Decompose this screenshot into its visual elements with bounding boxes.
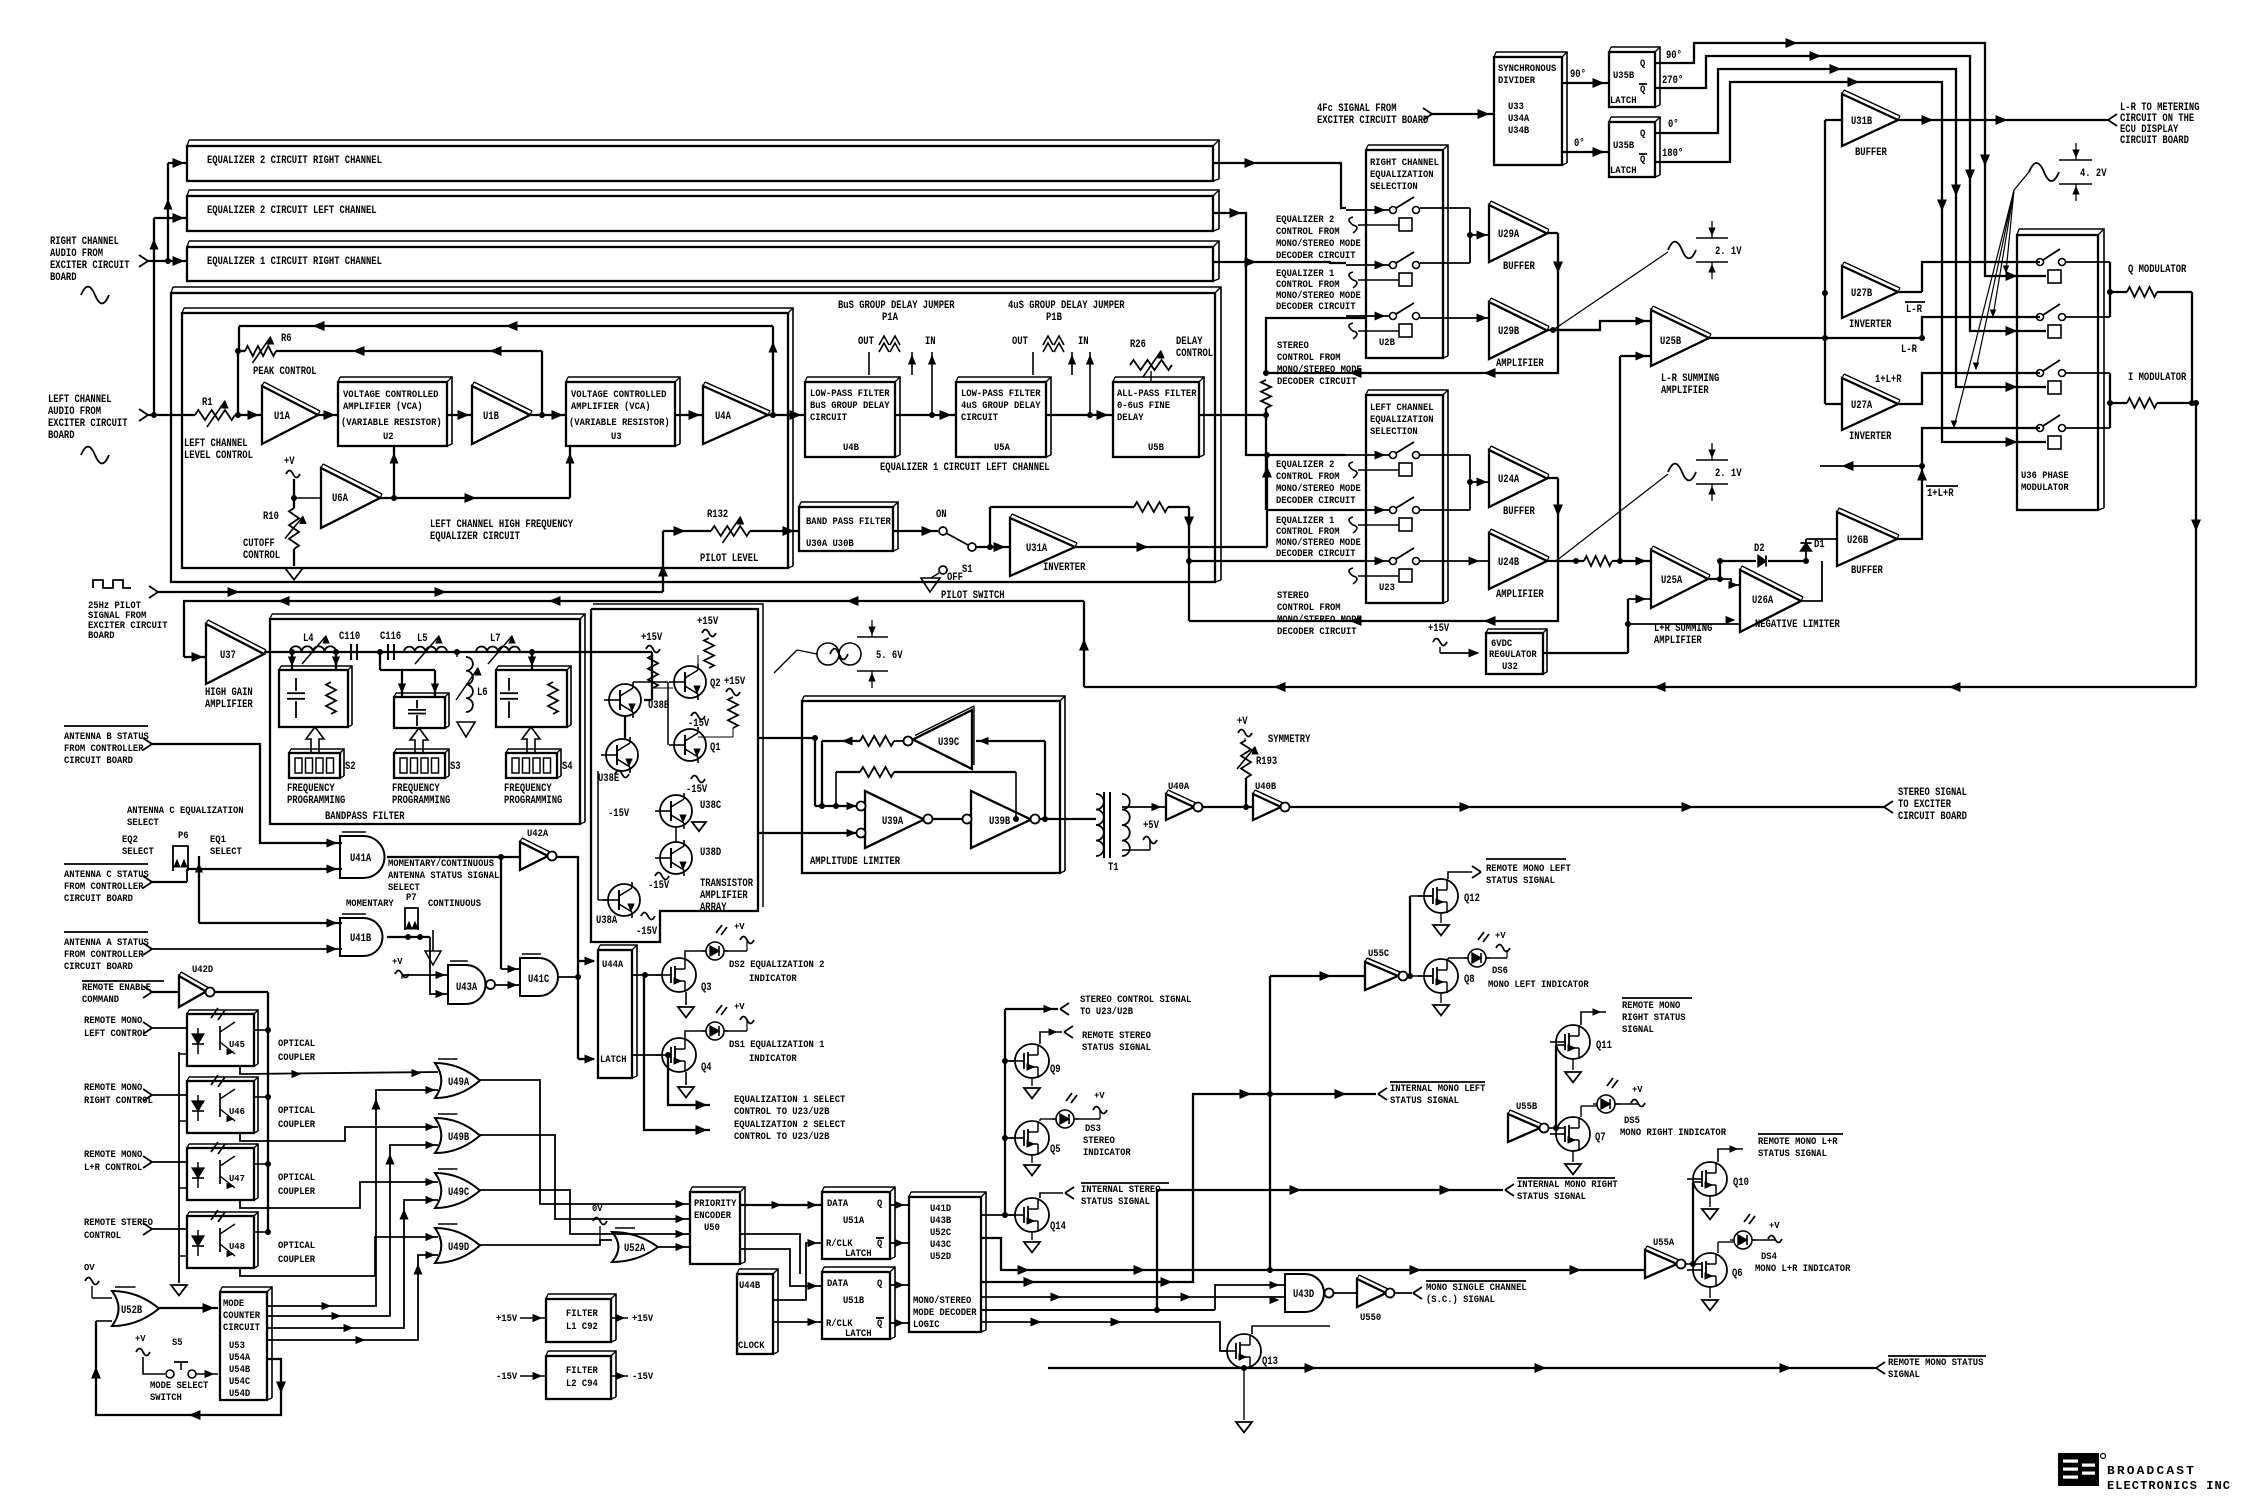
svg-text:FILTER: FILTER: [566, 1309, 598, 1320]
svg-text:-15V: -15V: [648, 880, 670, 892]
svg-text:LATCH: LATCH: [600, 1055, 627, 1066]
svg-text:CONTROL: CONTROL: [84, 1231, 121, 1242]
svg-text:STATUS SIGNAL: STATUS SIGNAL: [1517, 1192, 1586, 1203]
svg-text:U38E: U38E: [598, 773, 620, 785]
svg-text:U2: U2: [383, 432, 394, 443]
svg-text:REMOTE STEREO: REMOTE STEREO: [84, 1218, 153, 1229]
svg-text:AUDIO FROM: AUDIO FROM: [50, 248, 103, 260]
svg-text:P1A: P1A: [882, 312, 898, 324]
svg-text:CUTOFF: CUTOFF: [243, 538, 275, 550]
svg-text:Q MODULATOR: Q MODULATOR: [2128, 264, 2187, 276]
svg-text:BOARD: BOARD: [88, 631, 115, 642]
svg-text:MONO/STEREO MODE: MONO/STEREO MODE: [1276, 483, 1361, 495]
svg-text:Q: Q: [877, 1239, 882, 1250]
svg-text:AUDIO FROM: AUDIO FROM: [48, 406, 101, 418]
svg-text:REMOTE MONO STATUS: REMOTE MONO STATUS: [1888, 1358, 1983, 1369]
svg-text:R193: R193: [1256, 756, 1278, 768]
svg-text:0-6uS FINE: 0-6uS FINE: [1117, 401, 1170, 412]
svg-text:U6A: U6A: [332, 493, 348, 505]
svg-text:+15V: +15V: [632, 1314, 653, 1325]
svg-text:PROGRAMMING: PROGRAMMING: [392, 795, 451, 807]
svg-text:MONO SINGLE CHANNEL: MONO SINGLE CHANNEL: [1426, 1283, 1527, 1294]
svg-text:U45: U45: [229, 1040, 245, 1050]
svg-text:P1B: P1B: [1046, 312, 1062, 324]
svg-text:FREQUENCY: FREQUENCY: [287, 783, 335, 795]
svg-text:COUPLER: COUPLER: [278, 1120, 315, 1131]
svg-text:180°: 180°: [1662, 148, 1683, 160]
svg-text:REMOTE MONO L+R: REMOTE MONO L+R: [1758, 1137, 1838, 1148]
svg-text:U43C: U43C: [930, 1240, 951, 1251]
svg-text:AMPLIFIER: AMPLIFIER: [1661, 385, 1709, 397]
svg-text:OPTICAL: OPTICAL: [278, 1241, 315, 1252]
svg-text:P6: P6: [178, 831, 189, 842]
svg-text:Q: Q: [877, 1279, 882, 1290]
svg-text:EQUALIZER 2 CIRCUIT RIGHT CHAN: EQUALIZER 2 CIRCUIT RIGHT CHANNEL: [207, 155, 382, 167]
svg-text:-15V: -15V: [686, 784, 708, 796]
svg-text:U41A: U41A: [350, 853, 372, 865]
svg-text:STEREO CONTROL SIGNAL: STEREO CONTROL SIGNAL: [1080, 995, 1191, 1006]
svg-text:U1B: U1B: [483, 411, 499, 423]
svg-text:AMPLIFIER: AMPLIFIER: [1496, 589, 1544, 601]
svg-text:EQUALIZER 1 CIRCUIT LEFT CHANN: EQUALIZER 1 CIRCUIT LEFT CHANNEL: [880, 462, 1050, 474]
svg-text:EQUALIZER 2: EQUALIZER 2: [1276, 215, 1334, 226]
svg-text:U47: U47: [229, 1174, 245, 1184]
svg-text:6VDC: 6VDC: [1491, 639, 1512, 650]
svg-text:COUPLER: COUPLER: [278, 1053, 315, 1064]
svg-text:EQUALIZATION 1 SELECT: EQUALIZATION 1 SELECT: [734, 1095, 845, 1106]
svg-text:Q9: Q9: [1050, 1064, 1061, 1076]
svg-text:U54D: U54D: [229, 1389, 250, 1400]
svg-text:CONTROL TO U23/U2B: CONTROL TO U23/U2B: [734, 1106, 829, 1118]
svg-text:D1: D1: [1814, 539, 1825, 551]
svg-text:ANTENNA C STATUS: ANTENNA C STATUS: [64, 870, 149, 881]
svg-text:RIGHT CONTROL: RIGHT CONTROL: [84, 1096, 153, 1107]
svg-text:Q: Q: [1640, 85, 1645, 96]
svg-text:U37: U37: [220, 650, 236, 662]
svg-text:SELECT: SELECT: [122, 847, 154, 858]
svg-text:INTERNAL MONO LEFT: INTERNAL MONO LEFT: [1390, 1084, 1485, 1095]
svg-text:LATCH: LATCH: [845, 1249, 872, 1260]
svg-text:(VARIABLE RESISTOR): (VARIABLE RESISTOR): [569, 417, 670, 429]
svg-text:INTERNAL MONO RIGHT: INTERNAL MONO RIGHT: [1517, 1180, 1618, 1191]
svg-text:Q7: Q7: [1595, 1132, 1606, 1144]
svg-text:U42A: U42A: [527, 829, 548, 840]
svg-text:P7: P7: [406, 893, 417, 904]
svg-text:AMPLIFIER: AMPLIFIER: [1654, 635, 1702, 647]
svg-text:PROGRAMMING: PROGRAMMING: [287, 795, 346, 807]
svg-text:ANTENNA STATUS SIGNAL: ANTENNA STATUS SIGNAL: [388, 871, 499, 882]
svg-text:DS3: DS3: [1085, 1124, 1101, 1135]
svg-text:U38A: U38A: [596, 915, 618, 927]
svg-text:CONTROL FROM: CONTROL FROM: [1277, 603, 1341, 614]
svg-text:MODE: MODE: [223, 1299, 244, 1310]
svg-text:U55A: U55A: [1653, 1238, 1674, 1249]
svg-text:ANTENNA C EQUALIZATION: ANTENNA C EQUALIZATION: [127, 806, 244, 817]
svg-text:U51B: U51B: [843, 1296, 864, 1307]
svg-text:1+L+R: 1+L+R: [1875, 374, 1902, 386]
svg-text:CIRCUIT: CIRCUIT: [810, 413, 847, 424]
svg-text:U30A U30B: U30A U30B: [806, 539, 854, 550]
svg-text:2. 1V: 2. 1V: [1715, 246, 1742, 258]
svg-text:ON: ON: [936, 509, 947, 521]
svg-text:EQ2: EQ2: [122, 835, 138, 846]
svg-text:L1 C92: L1 C92: [566, 1322, 598, 1333]
svg-text:EQ1: EQ1: [210, 835, 226, 846]
svg-text:ANTENNA B STATUS: ANTENNA B STATUS: [64, 732, 149, 743]
svg-text:CIRCUIT BOARD: CIRCUIT BOARD: [64, 894, 133, 905]
svg-text:U550: U550: [1360, 1313, 1381, 1324]
svg-text:Q13: Q13: [1262, 1356, 1278, 1368]
svg-text:STEREO SIGNAL: STEREO SIGNAL: [1898, 787, 1967, 799]
svg-text:Q2: Q2: [710, 678, 721, 690]
svg-text:U34A: U34A: [1508, 114, 1529, 125]
svg-text:CONTROL FROM: CONTROL FROM: [1276, 527, 1340, 538]
svg-text:Q: Q: [877, 1199, 882, 1210]
svg-text:REMOTE MONO: REMOTE MONO: [84, 1083, 142, 1094]
svg-text:U43A: U43A: [456, 982, 478, 994]
svg-text:+V: +V: [1769, 1221, 1780, 1231]
svg-text:Q: Q: [1640, 59, 1645, 70]
svg-text:U51A: U51A: [843, 1216, 864, 1227]
svg-text:MODE SELECT: MODE SELECT: [150, 1381, 208, 1392]
svg-text:PROGRAMMING: PROGRAMMING: [504, 795, 563, 807]
svg-text:SIGNAL: SIGNAL: [1888, 1370, 1920, 1381]
svg-text:ENCODER: ENCODER: [694, 1211, 731, 1222]
svg-text:1+L+R: 1+L+R: [1927, 488, 1954, 500]
svg-text:CIRCUIT BOARD: CIRCUIT BOARD: [64, 756, 133, 767]
svg-text:U54A: U54A: [229, 1353, 250, 1364]
svg-text:U44A: U44A: [602, 960, 623, 971]
svg-text:U3: U3: [611, 432, 622, 443]
svg-text:EXCITER CIRCUIT: EXCITER CIRCUIT: [48, 418, 128, 430]
svg-text:U41B: U41B: [350, 933, 372, 945]
svg-text:S4: S4: [562, 761, 573, 773]
svg-text:MODULATOR: MODULATOR: [2021, 483, 2069, 494]
svg-text:90°: 90°: [1666, 50, 1682, 62]
svg-text:CIRCUIT BOARD: CIRCUIT BOARD: [1898, 811, 1967, 823]
svg-text:U38C: U38C: [700, 800, 722, 812]
svg-text:4uS GROUP DELAY JUMPER: 4uS GROUP DELAY JUMPER: [1008, 300, 1125, 312]
svg-text:U39C: U39C: [938, 737, 960, 749]
svg-text:REMOTE STEREO: REMOTE STEREO: [1082, 1031, 1151, 1042]
svg-text:U50: U50: [704, 1223, 720, 1234]
svg-text:MONO L+R INDICATOR: MONO L+R INDICATOR: [1755, 1264, 1850, 1275]
svg-text:CONTROL FROM: CONTROL FROM: [1276, 280, 1340, 291]
svg-text:DECODER CIRCUIT: DECODER CIRCUIT: [1276, 496, 1356, 507]
svg-text:4uS GROUP DELAY: 4uS GROUP DELAY: [961, 401, 1041, 412]
svg-text:AMPLIFIER (VCA): AMPLIFIER (VCA): [343, 401, 423, 413]
svg-text:R132: R132: [707, 509, 728, 521]
svg-text:CONTROL: CONTROL: [243, 550, 280, 562]
svg-text:U54B: U54B: [229, 1365, 250, 1376]
svg-text:PILOT LEVEL: PILOT LEVEL: [700, 553, 759, 565]
svg-text:U33: U33: [1508, 102, 1524, 113]
svg-text:ANTENNA A STATUS: ANTENNA A STATUS: [64, 938, 149, 949]
svg-text:SELECTION: SELECTION: [1370, 182, 1418, 193]
svg-text:0°: 0°: [1574, 138, 1585, 150]
svg-text:+15V: +15V: [496, 1314, 517, 1325]
svg-text:ARRAY: ARRAY: [700, 902, 727, 914]
svg-text:REMOTE MONO: REMOTE MONO: [84, 1016, 142, 1027]
svg-text:AMPLITUDE LIMITER: AMPLITUDE LIMITER: [810, 856, 900, 868]
svg-text:CIRCUIT BOARD: CIRCUIT BOARD: [64, 962, 133, 973]
svg-text:L7: L7: [490, 633, 501, 645]
svg-text:270°: 270°: [1662, 75, 1683, 87]
svg-text:U35B: U35B: [1613, 141, 1634, 152]
svg-text:INDICATOR: INDICATOR: [1083, 1148, 1131, 1159]
svg-text:SELECT: SELECT: [210, 847, 242, 858]
svg-text:U40B: U40B: [1255, 782, 1276, 793]
svg-text:OPTICAL: OPTICAL: [278, 1039, 315, 1050]
svg-text:+V: +V: [392, 957, 403, 967]
svg-text:IN: IN: [925, 336, 936, 348]
svg-text:INDICATOR: INDICATOR: [749, 974, 797, 985]
svg-text:-15V: -15V: [632, 1372, 653, 1383]
svg-text:+15V: +15V: [724, 676, 746, 688]
svg-text:Q: Q: [1640, 155, 1645, 166]
svg-text:5. 6V: 5. 6V: [876, 650, 903, 662]
svg-text:U52D: U52D: [930, 1252, 951, 1263]
svg-text:U41C: U41C: [528, 974, 550, 986]
svg-text:C116: C116: [380, 631, 401, 643]
svg-text:U38D: U38D: [700, 847, 722, 859]
svg-text:-15V: -15V: [496, 1372, 517, 1383]
svg-text:COMMAND: COMMAND: [82, 995, 119, 1006]
svg-text:L+R CONTROL: L+R CONTROL: [84, 1163, 142, 1174]
svg-text:LOW-PASS FILTER: LOW-PASS FILTER: [961, 389, 1041, 400]
svg-text:Q: Q: [877, 1319, 882, 1330]
svg-text:(S.C.) SIGNAL: (S.C.) SIGNAL: [1426, 1294, 1495, 1306]
svg-text:BuS GROUP DELAY: BuS GROUP DELAY: [810, 401, 890, 412]
svg-text:U52B: U52B: [121, 1305, 143, 1317]
svg-text:OV: OV: [84, 1263, 95, 1273]
svg-text:U24A: U24A: [1498, 474, 1520, 486]
svg-text:FROM CONTROLLER: FROM CONTROLLER: [64, 744, 144, 755]
svg-text:LATCH: LATCH: [1610, 96, 1637, 107]
svg-text:U49C: U49C: [448, 1187, 470, 1199]
svg-text:VOLTAGE CONTROLLED: VOLTAGE CONTROLLED: [571, 390, 666, 401]
svg-text:U43D: U43D: [1293, 1289, 1315, 1301]
svg-text:BROADCAST: BROADCAST: [2107, 1464, 2196, 1478]
svg-text:INDICATOR: INDICATOR: [749, 1054, 797, 1065]
svg-text:+V: +V: [734, 1002, 745, 1012]
svg-text:U55B: U55B: [1516, 1102, 1537, 1113]
svg-text:ALL-PASS FILTER: ALL-PASS FILTER: [1117, 389, 1197, 400]
svg-text:U31A: U31A: [1026, 543, 1048, 555]
svg-text:REMOTE MONO: REMOTE MONO: [1622, 1001, 1680, 1012]
svg-text:U52A: U52A: [624, 1243, 646, 1255]
svg-text:I MODULATOR: I MODULATOR: [2128, 372, 2187, 384]
svg-text:FROM CONTROLLER: FROM CONTROLLER: [64, 950, 144, 961]
svg-text:LEFT CHANNEL: LEFT CHANNEL: [1370, 403, 1434, 414]
svg-text:U53: U53: [229, 1341, 245, 1352]
svg-text:MOMENTARY: MOMENTARY: [346, 899, 394, 910]
svg-text:DELAY: DELAY: [1176, 336, 1203, 348]
svg-text:MONO/STEREO: MONO/STEREO: [913, 1295, 971, 1307]
svg-text:REMOTE MONO LEFT: REMOTE MONO LEFT: [1486, 864, 1571, 875]
svg-text:EQUALIZER 1: EQUALIZER 1: [1276, 269, 1334, 280]
svg-text:FILTER: FILTER: [566, 1366, 598, 1377]
svg-text:EQUALIZER 2 CIRCUIT LEFT CHANN: EQUALIZER 2 CIRCUIT LEFT CHANNEL: [207, 205, 377, 217]
svg-text:Q3: Q3: [701, 982, 712, 994]
svg-text:2. 1V: 2. 1V: [1715, 468, 1742, 480]
svg-text:U4A: U4A: [715, 411, 731, 423]
svg-text:STEREO: STEREO: [1083, 1136, 1115, 1147]
svg-text:STEREO: STEREO: [1277, 591, 1309, 602]
svg-text:SELECT: SELECT: [127, 818, 159, 829]
svg-text:COUNTER: COUNTER: [223, 1311, 260, 1322]
svg-text:EQUALIZER 1: EQUALIZER 1: [1276, 516, 1334, 527]
svg-text:LOGIC: LOGIC: [913, 1320, 940, 1331]
svg-text:+V: +V: [734, 922, 745, 932]
svg-text:U54C: U54C: [229, 1377, 250, 1388]
svg-text:CONTROL: CONTROL: [1176, 348, 1213, 360]
svg-text:OUT: OUT: [1012, 336, 1028, 348]
svg-text:0°: 0°: [1668, 119, 1679, 131]
svg-text:U25B: U25B: [1660, 336, 1682, 348]
svg-text:+15V: +15V: [641, 632, 663, 644]
svg-text:U48: U48: [229, 1242, 245, 1252]
svg-text:EXCITER CIRCUIT BOARD: EXCITER CIRCUIT BOARD: [1317, 115, 1429, 127]
svg-text:L-R: L-R: [1901, 344, 1917, 356]
svg-text:TO U23/U2B: TO U23/U2B: [1080, 1006, 1133, 1018]
svg-text:SIGNAL: SIGNAL: [1622, 1025, 1654, 1036]
svg-text:STATUS SIGNAL: STATUS SIGNAL: [1486, 876, 1555, 887]
svg-text:LEFT CHANNEL HIGH FREQUENCY: LEFT CHANNEL HIGH FREQUENCY: [430, 519, 573, 531]
svg-text:Q14: Q14: [1050, 1221, 1066, 1233]
svg-text:EXCITER CIRCUIT: EXCITER CIRCUIT: [50, 260, 130, 272]
svg-text:SELECTION: SELECTION: [1370, 427, 1418, 438]
svg-text:DECODER CIRCUIT: DECODER CIRCUIT: [1277, 627, 1357, 638]
svg-text:CIRCUIT: CIRCUIT: [961, 413, 998, 424]
svg-text:FROM CONTROLLER: FROM CONTROLLER: [64, 882, 144, 893]
svg-text:U55C: U55C: [1368, 949, 1389, 960]
svg-text:S5: S5: [172, 1338, 183, 1349]
svg-text:U29B: U29B: [1498, 326, 1520, 338]
svg-text:+V: +V: [1094, 1091, 1105, 1101]
svg-text:C110: C110: [339, 631, 360, 643]
svg-text:4. 2V: 4. 2V: [2080, 168, 2107, 180]
svg-text:IN: IN: [1078, 336, 1089, 348]
svg-text:STATUS SIGNAL: STATUS SIGNAL: [1390, 1096, 1459, 1107]
svg-text:BUFFER: BUFFER: [1855, 147, 1887, 159]
svg-text:DS1 EQUALIZATION 1: DS1 EQUALIZATION 1: [729, 1040, 824, 1051]
svg-text:AMPLIFIER: AMPLIFIER: [205, 699, 253, 711]
svg-text:DS6: DS6: [1492, 966, 1508, 977]
svg-text:LATCH: LATCH: [1610, 166, 1637, 177]
svg-text:Q4: Q4: [701, 1062, 712, 1074]
svg-text:U49A: U49A: [448, 1077, 470, 1089]
svg-text:D2: D2: [1754, 543, 1765, 555]
svg-text:FREQUENCY: FREQUENCY: [504, 783, 552, 795]
svg-text:U26A: U26A: [1752, 595, 1774, 607]
svg-text:STATUS SIGNAL: STATUS SIGNAL: [1758, 1149, 1827, 1160]
svg-text:+V: +V: [1237, 716, 1248, 728]
svg-text:BuS GROUP DELAY JUMPER: BuS GROUP DELAY JUMPER: [838, 300, 955, 312]
svg-text:DS2 EQUALIZATION 2: DS2 EQUALIZATION 2: [729, 960, 824, 971]
svg-text:L6: L6: [477, 687, 488, 699]
svg-text:CONTROL FROM: CONTROL FROM: [1276, 227, 1340, 238]
svg-text:BUFFER: BUFFER: [1503, 261, 1535, 273]
svg-text:SWITCH: SWITCH: [150, 1393, 182, 1404]
svg-text:R1: R1: [202, 397, 213, 409]
svg-text:EQUALIZER 1 CIRCUIT RIGHT CHAN: EQUALIZER 1 CIRCUIT RIGHT CHANNEL: [207, 256, 382, 268]
svg-text:Q6: Q6: [1732, 1268, 1743, 1280]
svg-text:U40A: U40A: [1168, 782, 1189, 793]
svg-text:+15V: +15V: [697, 616, 719, 628]
svg-text:L2 C94: L2 C94: [566, 1379, 598, 1390]
svg-text:LEFT CHANNEL: LEFT CHANNEL: [184, 438, 248, 450]
svg-text:DECODER CIRCUIT: DECODER CIRCUIT: [1276, 251, 1356, 262]
svg-text:LOW-PASS FILTER: LOW-PASS FILTER: [810, 389, 890, 400]
svg-text:MONO/STEREO MODE: MONO/STEREO MODE: [1276, 290, 1361, 302]
svg-text:DECODER CIRCUIT: DECODER CIRCUIT: [1276, 302, 1356, 313]
svg-text:U2B: U2B: [1379, 338, 1395, 349]
svg-text:STATUS SIGNAL: STATUS SIGNAL: [1081, 1197, 1150, 1208]
svg-text:Q12: Q12: [1464, 893, 1480, 905]
svg-text:STATUS SIGNAL: STATUS SIGNAL: [1082, 1043, 1151, 1054]
svg-text:R26: R26: [1130, 339, 1146, 351]
svg-text:MONO/STEREO MODE: MONO/STEREO MODE: [1276, 238, 1361, 250]
svg-text:VOLTAGE CONTROLLED: VOLTAGE CONTROLLED: [343, 390, 438, 401]
svg-text:RIGHT CHANNEL: RIGHT CHANNEL: [50, 236, 119, 248]
svg-text:90°: 90°: [1570, 69, 1586, 81]
svg-text:BOARD: BOARD: [50, 272, 77, 284]
svg-text:S2: S2: [345, 761, 356, 773]
svg-text:OPTICAL: OPTICAL: [278, 1106, 315, 1117]
svg-text:U52C: U52C: [930, 1228, 951, 1239]
svg-text:MODE DECODER: MODE DECODER: [913, 1308, 977, 1319]
svg-text:-15V: -15V: [688, 718, 710, 730]
svg-text:HIGH GAIN: HIGH GAIN: [205, 687, 253, 699]
svg-text:NEGATIVE LIMITER: NEGATIVE LIMITER: [1755, 619, 1840, 631]
svg-text:DATA: DATA: [827, 1279, 848, 1290]
svg-text:CONTROL FROM: CONTROL FROM: [1277, 353, 1341, 364]
svg-text:U25A: U25A: [1661, 575, 1683, 587]
svg-text:-15V: -15V: [636, 926, 658, 938]
svg-text:PILOT SWITCH: PILOT SWITCH: [941, 590, 1005, 602]
svg-text:U5B: U5B: [1148, 443, 1164, 454]
svg-text:MONO/STEREO MODE: MONO/STEREO MODE: [1277, 364, 1362, 376]
svg-text:L-R SUMMING: L-R SUMMING: [1661, 373, 1720, 385]
svg-text:MOMENTARY/CONTINUOUS: MOMENTARY/CONTINUOUS: [388, 858, 494, 870]
svg-text:T1: T1: [1108, 862, 1119, 874]
svg-text:U44B: U44B: [739, 1281, 760, 1292]
svg-text:U29A: U29A: [1498, 229, 1520, 241]
svg-text:BANDPASS FILTER: BANDPASS FILTER: [325, 811, 405, 823]
svg-text:MONO RIGHT INDICATOR: MONO RIGHT INDICATOR: [1620, 1128, 1726, 1139]
svg-text:U27B: U27B: [1851, 288, 1873, 300]
svg-text:EQUALIZATION 2 SELECT: EQUALIZATION 2 SELECT: [734, 1120, 845, 1131]
svg-text:U42D: U42D: [192, 965, 213, 976]
svg-text:Q5: Q5: [1050, 1144, 1061, 1156]
svg-text:U49B: U49B: [448, 1132, 470, 1144]
svg-text:BUFFER: BUFFER: [1503, 506, 1535, 518]
svg-text:Q1: Q1: [710, 742, 721, 754]
svg-text:REMOTE MONO: REMOTE MONO: [84, 1150, 142, 1161]
svg-text:BOARD: BOARD: [48, 430, 75, 442]
svg-text:Q11: Q11: [1596, 1040, 1612, 1052]
svg-text:LEVEL CONTROL: LEVEL CONTROL: [184, 450, 253, 462]
svg-text:COUPLER: COUPLER: [278, 1255, 315, 1266]
svg-text:U26B: U26B: [1847, 535, 1869, 547]
svg-text:DIVIDER: DIVIDER: [1498, 76, 1535, 87]
svg-text:TO EXCITER: TO EXCITER: [1898, 799, 1951, 811]
svg-text:0V: 0V: [592, 1204, 603, 1214]
svg-text:RIGHT CHANNEL: RIGHT CHANNEL: [1370, 158, 1439, 169]
svg-text:L4: L4: [303, 633, 314, 645]
svg-text:+V: +V: [1495, 931, 1506, 941]
